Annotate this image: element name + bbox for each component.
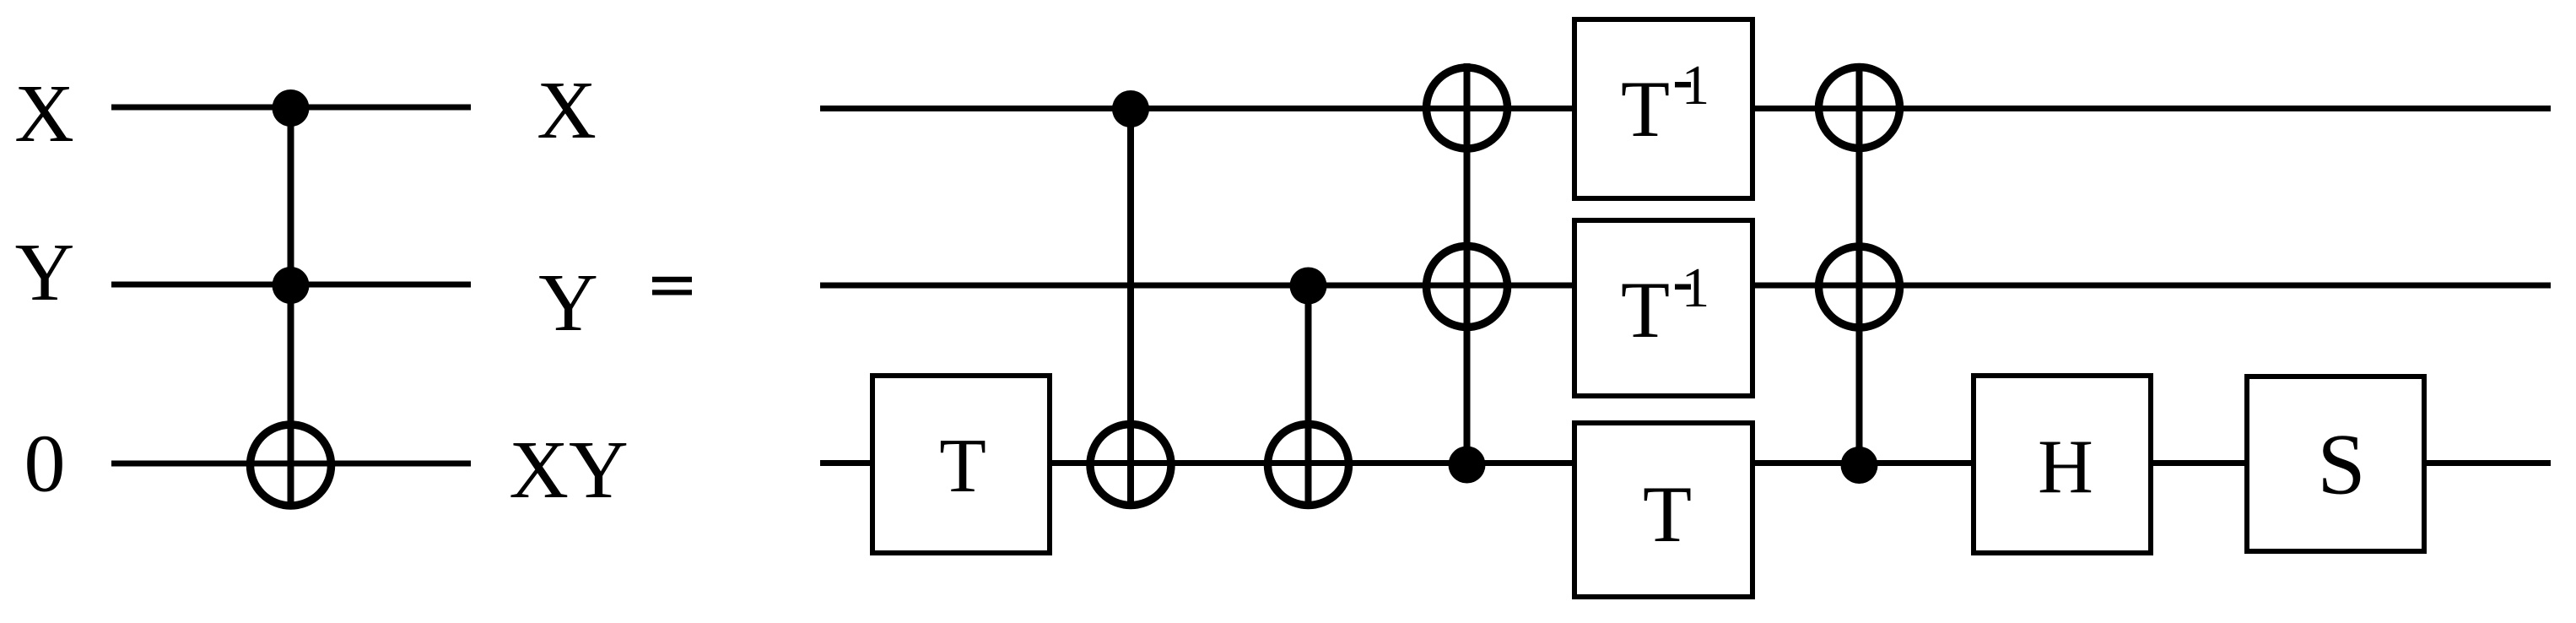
CNOT D target on qubit 1 — [1819, 68, 1900, 149]
node label Y (output, left circuit) — [538, 257, 598, 349]
svg-text:Y: Y — [538, 257, 598, 349]
gate S (on qubit 3) — [2247, 377, 2424, 551]
control dot on qubit 2 (CNOT B) — [1290, 268, 1327, 305]
control dot on qubit 1 (CNOT A) — [1112, 90, 1149, 127]
svg-text:T: T — [1621, 265, 1670, 355]
wire: Toffoli vertical connector (left circuit) — [288, 107, 294, 509]
wire: CNOT A vertical connector (q1 control -> q3 target) — [1127, 109, 1134, 510]
wire Y (left circuit, qubit 2) — [111, 282, 471, 288]
node label XY (output, left circuit) — [509, 425, 629, 516]
svg-text:T: T — [1643, 469, 1692, 559]
gate T (second, on qubit 3) — [1574, 423, 1752, 597]
equals sign — [652, 277, 692, 295]
svg-text:1: 1 — [1682, 54, 1710, 116]
control dot on wire Y (left Toffoli) — [273, 267, 310, 304]
gate T-1 (on qubit 1) — [1574, 19, 1752, 198]
wire 0 (left circuit, qubit 3) — [111, 461, 471, 467]
node label Y (input, left circuit) — [15, 227, 75, 318]
svg-text:T: T — [1621, 64, 1670, 154]
wire qubit 1 (right circuit) — [820, 106, 2551, 111]
svg-text:S: S — [2317, 417, 2365, 513]
svg-text:XY: XY — [509, 425, 629, 516]
node label 0 (input, left circuit) — [24, 419, 66, 510]
CNOT C target on qubit 1 — [1427, 68, 1508, 149]
wire: CNOT B vertical connector (q2 control -> q3 target) — [1305, 285, 1312, 509]
wire: column C vertical connector (q3 control -> q1,q2 targets) — [1464, 63, 1471, 465]
svg-text:X: X — [14, 68, 74, 160]
svg-text:H: H — [2038, 424, 2093, 509]
gate H (on qubit 3) — [1974, 376, 2151, 553]
control dot on qubit 3 (column C) — [1449, 447, 1486, 484]
wire qubit 2 (right circuit) — [820, 283, 2551, 289]
svg-text:1: 1 — [1682, 257, 1710, 319]
control dot on wire X (left Toffoli) — [273, 89, 310, 127]
svg-text:Y: Y — [15, 227, 75, 318]
CNOT A target on qubit 3 — [1090, 425, 1171, 506]
CNOT D target on qubit 2 — [1819, 246, 1900, 328]
CNOT C target on qubit 2 — [1427, 246, 1508, 328]
svg-text:X: X — [537, 65, 597, 156]
svg-text:T: T — [939, 423, 986, 508]
control dot on qubit 3 (column D) — [1841, 447, 1878, 484]
svg-text:0: 0 — [24, 419, 66, 510]
CNOT target on wire 0 (left Toffoli) — [251, 425, 332, 506]
node label X (input, left circuit) — [14, 68, 74, 160]
gate T (first, on qubit 3) — [872, 376, 1050, 553]
node label X (output, left circuit) — [537, 65, 597, 156]
wire: column D vertical connector (q3 control -> q1,q2 targets) — [1856, 63, 1863, 465]
wire qubit 3 (right circuit) — [820, 460, 2551, 466]
CNOT B target on qubit 3 — [1268, 425, 1349, 506]
wire X (left circuit, qubit 1) — [111, 105, 471, 111]
gate T-1 (on qubit 2) — [1574, 220, 1752, 396]
